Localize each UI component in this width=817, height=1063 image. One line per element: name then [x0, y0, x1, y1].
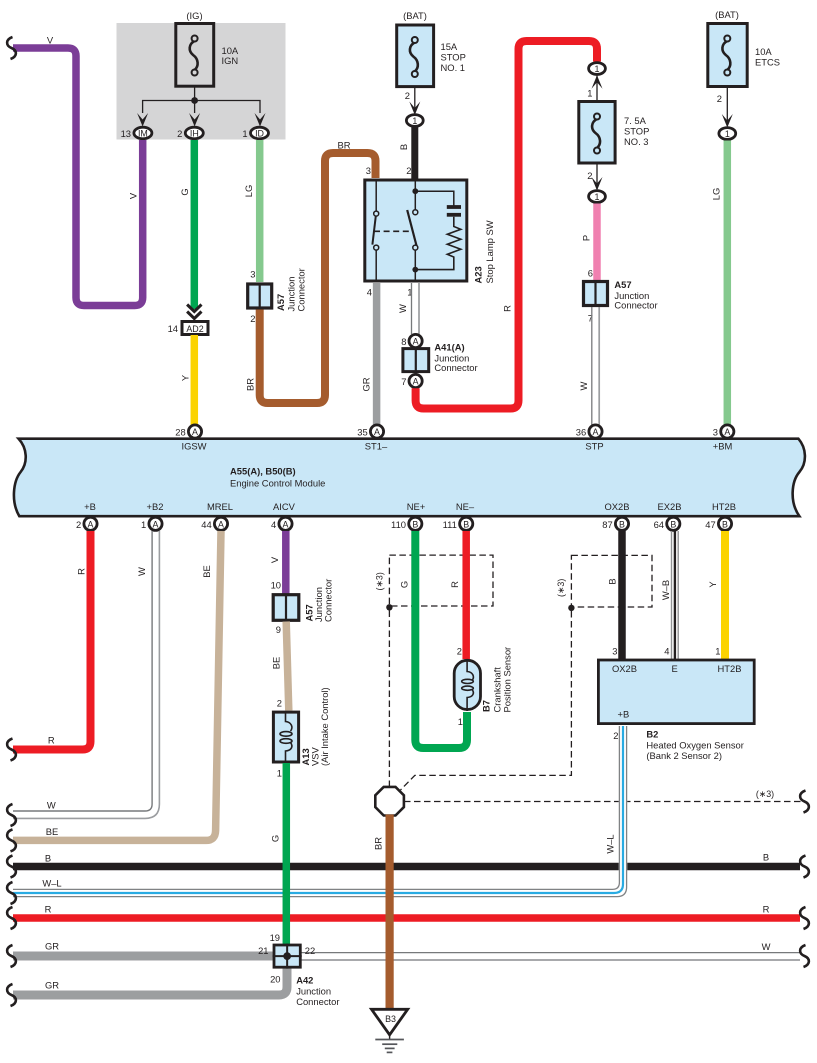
svg-text:9: 9 [276, 624, 281, 635]
wire fuse to connector [414, 88, 416, 113]
wire P pink to A57 [593, 204, 601, 282]
svg-text:V: V [128, 192, 139, 199]
wire distribution bar [143, 101, 260, 114]
svg-text:R: R [45, 904, 52, 915]
svg-text:A55(A), B50(B): A55(A), B50(B) [230, 466, 296, 477]
pin 28 IGSW [188, 425, 201, 438]
svg-text:R: R [48, 735, 55, 746]
svg-text:3: 3 [612, 646, 617, 657]
svg-text:3: 3 [250, 269, 255, 280]
svg-text:GR: GR [45, 980, 59, 991]
wire V purple from page edge to IM [13, 48, 143, 306]
svg-text:Y: Y [707, 581, 718, 588]
wire BE beige A57 to A13 [286, 622, 289, 711]
svg-text:A57: A57 [275, 294, 286, 311]
svg-text:HT2B: HT2B [718, 663, 742, 674]
svg-text:R: R [76, 568, 87, 575]
svg-text:BR: BR [337, 140, 350, 151]
wire G green A13 to A42 [283, 763, 291, 945]
wire Y yellow AD2 to pin 28 [191, 335, 199, 425]
component B7 Crankshaft Position Sensor [454, 660, 480, 711]
svg-text:W: W [762, 941, 771, 952]
svg-text:64: 64 [654, 519, 664, 530]
svg-text:Position Sensor: Position Sensor [502, 647, 513, 713]
svg-text:1: 1 [141, 519, 146, 530]
wire W white from A23 pin1 to A41 [412, 283, 420, 334]
svg-text:1: 1 [587, 88, 592, 99]
wire R red +B to left edge [13, 531, 91, 750]
break squiggle dashed right [800, 791, 809, 813]
junction connector A41(A) [409, 334, 422, 347]
svg-text:A41(A): A41(A) [434, 342, 464, 353]
svg-text:B: B [45, 853, 51, 864]
svg-text:1: 1 [715, 646, 720, 657]
svg-text:2: 2 [405, 90, 410, 101]
svg-text:V: V [47, 35, 54, 46]
node junction dot [191, 97, 198, 104]
octagon shield ground node [375, 787, 404, 816]
svg-text:44: 44 [201, 519, 211, 530]
svg-text:MREL: MREL [207, 501, 233, 512]
fuse 10A ETCS [708, 24, 747, 87]
svg-text:STP: STP [585, 441, 603, 452]
break squiggle R+B left [7, 739, 16, 761]
svg-text:W–L: W–L [42, 878, 61, 889]
svg-text:W: W [578, 381, 589, 390]
ECM A55(A) B50(B) Engine Control Module [14, 439, 805, 517]
component A23 Stop Lamp SW [365, 180, 467, 281]
svg-text:21: 21 [258, 945, 268, 956]
svg-text:IH: IH [190, 129, 199, 139]
svg-text:22: 22 [305, 945, 315, 956]
wire W white A57 to STP [592, 307, 599, 425]
svg-text:20: 20 [270, 974, 280, 985]
connector oval IM [134, 127, 152, 139]
connector oval 1 below fuse [589, 191, 606, 203]
wire bus R red [13, 914, 800, 922]
svg-text:36: 36 [576, 427, 586, 438]
svg-text:Junction: Junction [296, 986, 331, 997]
break squiggle BE left [7, 829, 16, 851]
svg-text:BE: BE [201, 565, 212, 578]
wire G green from IH down to AD2 [191, 140, 199, 309]
component A13 VSV [273, 712, 298, 763]
arrow up [592, 75, 603, 89]
svg-text:4: 4 [271, 519, 276, 530]
svg-text:A57: A57 [614, 279, 631, 290]
svg-text:STOP: STOP [624, 126, 649, 137]
svg-text:B: B [670, 519, 676, 529]
fuse 7.5A STOP NO.3 [579, 102, 615, 164]
fuse 10A IGN box [176, 24, 214, 87]
svg-text:(Air Intake Control): (Air Intake Control) [319, 687, 330, 766]
svg-text:B7: B7 [481, 700, 492, 712]
svg-text:BE: BE [271, 657, 282, 670]
wire R red NE- to B7 [462, 531, 470, 659]
wire connector to fuse [596, 76, 598, 101]
wire bus W thin right of A42 [300, 952, 800, 954]
svg-text:2: 2 [613, 730, 618, 741]
arrow down [592, 177, 603, 191]
junction connector A42 [273, 944, 302, 969]
svg-text:1: 1 [277, 768, 282, 779]
svg-text:Stop Lamp SW: Stop Lamp SW [484, 220, 495, 283]
wire fuse to connector [596, 165, 598, 190]
svg-text:R: R [449, 581, 460, 588]
wire bus W white double to +B2 [13, 531, 159, 818]
svg-text:15A: 15A [441, 41, 458, 52]
svg-text:B: B [398, 144, 409, 150]
svg-text:B: B [722, 519, 728, 529]
break squiggle GR1 left [7, 945, 16, 967]
wire B black OX2B to B2 [618, 531, 626, 659]
svg-text:OX2B: OX2B [612, 663, 637, 674]
svg-text:A: A [374, 427, 380, 437]
svg-text:G: G [270, 835, 281, 842]
break squiggle W left [7, 804, 16, 826]
svg-text:(Bank 2 Sensor 2): (Bank 2 Sensor 2) [646, 750, 722, 761]
svg-text:3: 3 [713, 427, 718, 438]
wire B black to A23 [411, 128, 418, 180]
break squiggle W-L left [7, 882, 16, 904]
node shield drain dot 1 [386, 604, 392, 610]
svg-text:6: 6 [588, 268, 593, 279]
shield dashed box NE wires [389, 555, 493, 606]
wire fuse to connector [726, 88, 728, 126]
break squiggle B right [800, 856, 809, 878]
svg-text:87: 87 [602, 519, 612, 530]
wire V purple AICV to A57 [282, 531, 290, 595]
fuse 15A STOP NO.1 [397, 25, 434, 87]
break squiggle GR2 left [7, 984, 16, 1006]
svg-text:NE+: NE+ [407, 501, 426, 512]
svg-text:+B: +B [618, 709, 630, 720]
junction connector A57 (left) [248, 284, 272, 308]
svg-text:A: A [724, 427, 730, 437]
svg-text:P: P [581, 235, 592, 241]
svg-text:GR: GR [361, 377, 372, 391]
svg-text:Connector: Connector [323, 579, 334, 622]
svg-text:R: R [502, 305, 513, 312]
component B2 Heated Oxygen Sensor [598, 660, 754, 724]
arrow into IM [137, 113, 148, 127]
svg-text:+B2: +B2 [147, 501, 164, 512]
svg-text:E: E [672, 663, 678, 674]
svg-text:1: 1 [242, 128, 247, 139]
svg-text:IM: IM [138, 129, 148, 139]
svg-text:A: A [218, 519, 224, 529]
wire dashed (*3) to right edge [404, 801, 801, 803]
svg-text:Engine Control Module: Engine Control Module [230, 478, 325, 489]
svg-text:V: V [269, 556, 280, 563]
junction connector A57 (right) [584, 282, 608, 306]
svg-text:AD2: AD2 [186, 324, 203, 334]
svg-text:W: W [47, 800, 56, 811]
connector oval 1 above fuse STOP NO.3 [589, 63, 606, 75]
svg-text:ETCS: ETCS [755, 57, 780, 68]
pin 3 +BM [721, 425, 734, 438]
svg-text:1: 1 [595, 64, 600, 74]
svg-text:B2: B2 [646, 729, 658, 740]
svg-text:(IG): (IG) [186, 10, 202, 21]
svg-text:GR: GR [45, 941, 59, 952]
svg-text:ID: ID [255, 129, 264, 139]
svg-text:4: 4 [367, 287, 372, 298]
svg-text:IGN: IGN [222, 55, 239, 66]
svg-text:(∗3): (∗3) [375, 572, 385, 590]
svg-text:(BAT): (BAT) [715, 9, 739, 20]
svg-text:NO. 1: NO. 1 [441, 62, 466, 73]
arrow down [409, 102, 420, 116]
break squiggle R right [800, 907, 809, 929]
svg-text:2: 2 [76, 519, 81, 530]
wire Y yellow HT2B to B2 [721, 531, 729, 659]
arrow into IH [189, 113, 200, 127]
svg-text:28: 28 [175, 427, 185, 438]
svg-text:R: R [763, 904, 770, 915]
wire shield drain dashed to octagon [388, 611, 390, 787]
wire LG to +BM [724, 141, 732, 426]
svg-text:A: A [593, 427, 599, 437]
node shield drain dot 2 [568, 605, 574, 611]
connector oval IH [185, 127, 203, 139]
connector oval ID [251, 127, 269, 139]
arrow down [722, 114, 733, 128]
svg-text:47: 47 [705, 519, 715, 530]
break squiggle W right [800, 945, 809, 967]
svg-text:Heated Oxygen Sensor: Heated Oxygen Sensor [646, 740, 743, 751]
svg-text:A: A [192, 427, 198, 437]
svg-text:G: G [179, 188, 190, 195]
svg-text:(∗3): (∗3) [756, 789, 774, 799]
connector AD2 [182, 322, 208, 335]
svg-text:10: 10 [271, 580, 281, 591]
svg-text:A: A [413, 377, 419, 387]
svg-text:W–B: W–B [660, 580, 671, 600]
wire GR from A23 pin4 to ST1- [373, 283, 381, 425]
svg-text:LG: LG [243, 185, 254, 198]
svg-text:A42: A42 [296, 975, 313, 986]
svg-text:2: 2 [177, 128, 182, 139]
svg-text:35: 35 [357, 427, 367, 438]
svg-text:3: 3 [366, 165, 371, 176]
svg-text:A: A [88, 519, 94, 529]
connector oval 1 [719, 128, 736, 140]
svg-text:A23: A23 [473, 266, 484, 283]
wire R red from A41 up to fuse STOP NO.3 [416, 41, 597, 409]
svg-text:14: 14 [168, 323, 178, 334]
svg-text:HT2B: HT2B [712, 501, 736, 512]
svg-text:BR: BR [245, 378, 256, 391]
wire shield drain dashed to octagon via elbow [401, 611, 572, 790]
svg-text:B: B [606, 578, 617, 584]
svg-text:10A: 10A [755, 46, 772, 57]
svg-text:2: 2 [717, 93, 722, 104]
wire W-L from left edge to B2 pin2 [13, 726, 627, 897]
svg-text:B: B [619, 519, 625, 529]
svg-text:B3: B3 [385, 1014, 396, 1024]
svg-text:2: 2 [406, 165, 411, 176]
svg-text:Connector: Connector [614, 300, 657, 311]
wire BE beige MREL to left edge [13, 531, 221, 840]
svg-text:13: 13 [121, 128, 131, 139]
svg-text:G: G [398, 581, 409, 588]
svg-text:NE–: NE– [456, 501, 475, 512]
svg-text:W: W [397, 304, 408, 313]
svg-text:4: 4 [664, 646, 669, 657]
wire fuse output [194, 87, 196, 101]
svg-text:B: B [463, 519, 469, 529]
junction connector A57 (middle) [273, 594, 299, 622]
svg-text:Connector: Connector [296, 996, 339, 1007]
svg-text:1: 1 [725, 129, 730, 139]
wire bus GR gray lower to A42 pin20 [13, 966, 287, 995]
svg-text:19: 19 [270, 932, 280, 943]
chevron arrows into AD2 [187, 305, 201, 312]
wire bus GR gray upper [13, 952, 274, 961]
svg-text:BE: BE [46, 826, 59, 837]
svg-text:8: 8 [401, 336, 406, 347]
svg-text:(BAT): (BAT) [403, 10, 427, 21]
pin 35 ST1- [370, 425, 383, 438]
svg-text:110: 110 [391, 519, 406, 530]
svg-text:1: 1 [595, 192, 600, 202]
svg-text:7: 7 [401, 376, 406, 387]
gray relay-block background [117, 23, 286, 140]
wire BR brown A57 to A23 [260, 153, 376, 403]
svg-text:W–L: W–L [605, 834, 616, 853]
svg-text:NO. 3: NO. 3 [624, 136, 649, 147]
svg-text:111: 111 [443, 519, 457, 530]
arrow into ID [255, 113, 266, 127]
svg-text:BR: BR [373, 837, 384, 850]
shield dashed box OX2B [571, 555, 652, 607]
wire BR brown octagon to ground [386, 815, 394, 1009]
svg-text:(∗3): (∗3) [556, 579, 566, 597]
svg-text:+BM: +BM [713, 441, 733, 452]
svg-text:A: A [413, 337, 419, 347]
svg-text:Connector: Connector [434, 362, 477, 373]
ground B3 [372, 1009, 408, 1052]
wire W-B white/black EX2B to B2 [672, 531, 679, 659]
svg-text:A: A [283, 519, 289, 529]
wire bus B black [13, 863, 800, 871]
svg-text:A: A [153, 519, 159, 529]
pin 36 STP [589, 425, 602, 438]
svg-text:LG: LG [710, 188, 721, 201]
svg-text:1: 1 [412, 116, 417, 126]
svg-text:STOP: STOP [441, 52, 466, 63]
svg-text:Y: Y [179, 374, 190, 381]
svg-text:2: 2 [457, 646, 462, 657]
svg-text:W: W [136, 567, 147, 576]
svg-text:1: 1 [458, 716, 463, 727]
svg-text:7. 5A: 7. 5A [624, 115, 647, 126]
svg-text:ST1–: ST1– [365, 441, 388, 452]
wire LG from ID to A57 [256, 140, 264, 282]
svg-text:+B: +B [84, 501, 96, 512]
svg-text:Connector: Connector [296, 268, 307, 311]
break squiggle V wire [7, 37, 16, 59]
svg-text:2: 2 [250, 313, 255, 324]
wire G green NE+ to B7 [415, 531, 467, 748]
svg-text:2: 2 [277, 698, 282, 709]
svg-text:OX2B: OX2B [604, 501, 629, 512]
svg-text:2: 2 [587, 170, 592, 181]
svg-text:B: B [412, 519, 418, 529]
svg-text:AICV: AICV [273, 501, 296, 512]
break squiggle R left [7, 907, 16, 929]
svg-text:B: B [763, 852, 769, 863]
svg-text:EX2B: EX2B [658, 501, 682, 512]
connector oval 1 [406, 115, 423, 127]
svg-text:IGSW: IGSW [182, 441, 207, 452]
break squiggle B left [7, 856, 16, 878]
